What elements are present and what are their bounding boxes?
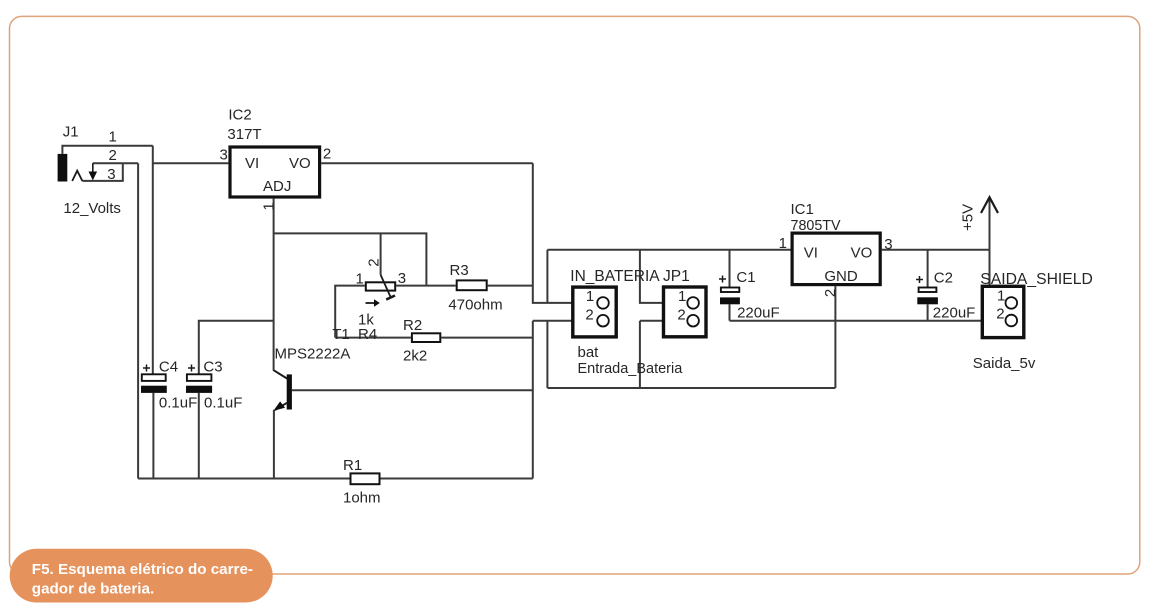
- wire SAIDA_SHIELD pin1 leg: [990, 250, 1005, 303]
- svg-text:2: 2: [677, 307, 685, 324]
- svg-text:IC2: IC2: [228, 107, 251, 124]
- op-amp U2 regulator IC1 7805TV box: [792, 233, 880, 285]
- svg-text:R4: R4: [358, 326, 377, 343]
- svg-text:2: 2: [822, 289, 839, 297]
- wire IC2 VI: [153, 162, 229, 164]
- connector J1: [58, 154, 98, 182]
- capacitor C2: [916, 276, 938, 304]
- wire JP1 pin2: [640, 320, 688, 322]
- wire +12V vertical to C4: [152, 146, 154, 374]
- connector IN_BATERIA: [573, 287, 616, 337]
- wire C3 bottom leg: [198, 393, 200, 479]
- wire R2 left: [335, 337, 411, 339]
- wire node VOUT vertical upper: [533, 163, 597, 303]
- wire T1 emitter leg: [273, 410, 275, 479]
- svg-text:1: 1: [779, 235, 787, 252]
- capacitor C1: [719, 276, 740, 305]
- wire R2 right: [441, 337, 533, 339]
- wire ADJ horizontal: [274, 233, 427, 285]
- svg-text:3: 3: [884, 236, 892, 253]
- svg-text:1ohm: 1ohm: [343, 490, 381, 507]
- wire J1 pin1 to vertical: [62, 146, 152, 154]
- wire J1 pin2 vertical to bottom: [137, 163, 139, 478]
- wire C2 top leg: [927, 250, 929, 287]
- svg-text:SAIDA_SHIELD: SAIDA_SHIELD: [980, 271, 1092, 288]
- svg-text:1: 1: [678, 288, 686, 305]
- JP1 pin labels: [677, 288, 686, 324]
- svg-text:R2: R2: [403, 317, 422, 334]
- svg-text:2: 2: [323, 145, 331, 162]
- svg-text:2: 2: [585, 307, 593, 324]
- svg-text:Saida_5v: Saida_5v: [973, 355, 1036, 372]
- transistor Q1 T1 MPS2222A: [274, 370, 292, 411]
- wire pot pin1: [335, 286, 365, 338]
- R4 labels: [332, 258, 406, 342]
- resistor R3: [457, 280, 487, 290]
- wire J1 pin3: [82, 163, 122, 181]
- wire net loop left vertical upper: [546, 250, 548, 303]
- svg-text:C2: C2: [934, 269, 953, 286]
- wire +5V vertical: [989, 197, 991, 250]
- svg-text:1: 1: [586, 288, 594, 305]
- svg-text:470ohm: 470ohm: [448, 297, 502, 314]
- svg-text:VI: VI: [804, 245, 818, 262]
- wire pot wiper leg: [380, 233, 382, 274]
- wire C4 bottom leg: [152, 393, 154, 479]
- wire pot pin3 to R3: [396, 285, 456, 287]
- capacitor C3: [186, 365, 212, 393]
- C4 C3 labels: [159, 359, 242, 412]
- svg-text:GND: GND: [824, 268, 858, 285]
- wire IC2 ADJ leg: [273, 199, 275, 371]
- connector SAIDA_SHIELD: [982, 286, 1024, 337]
- svg-text:12_Volts: 12_Volts: [63, 200, 121, 217]
- wire net loop left vertical lower: [546, 321, 548, 388]
- svg-text:T1: T1: [332, 326, 350, 343]
- wire J1 pin2: [93, 162, 138, 164]
- svg-text:C1: C1: [736, 269, 755, 286]
- resistor R1: [351, 473, 380, 484]
- svg-text:3: 3: [107, 166, 115, 183]
- svg-text:7805TV: 7805TV: [791, 218, 842, 234]
- R2 labels: [403, 317, 427, 364]
- power +5V arrow: [960, 197, 999, 231]
- IC2 labels: [220, 107, 332, 211]
- C2 labels: [933, 269, 976, 321]
- wire node VOUT vertical lower: [532, 321, 534, 479]
- svg-text:MPS2222A: MPS2222A: [275, 345, 351, 362]
- svg-text:IC1: IC1: [791, 201, 814, 218]
- wire bottom rail right of R1: [381, 478, 533, 480]
- svg-text:2k2: 2k2: [403, 347, 427, 364]
- resistor R2: [412, 333, 440, 342]
- wire JP1 vertical upper: [640, 250, 687, 303]
- connector JP1: [664, 287, 707, 337]
- R3 labels: [448, 262, 502, 313]
- svg-text:220uF: 220uF: [737, 304, 780, 321]
- svg-text:3: 3: [398, 270, 406, 287]
- svg-text:R3: R3: [450, 262, 469, 279]
- wire bottom rail left of R1: [138, 478, 349, 480]
- svg-text:2: 2: [366, 258, 383, 266]
- wire R3 right: [488, 285, 533, 287]
- wire IC2 VO: [321, 162, 533, 164]
- wire T1 base: [292, 389, 533, 391]
- svg-text:2: 2: [996, 306, 1004, 323]
- C1 labels: [736, 269, 779, 321]
- svg-text:+5V: +5V: [960, 204, 977, 231]
- IC1 labels: [779, 201, 893, 297]
- svg-text:VO: VO: [289, 155, 311, 172]
- svg-text:F5. Esquema elétrico do carre-: F5. Esquema elétrico do carre-: [32, 561, 253, 578]
- svg-text:R1: R1: [343, 457, 362, 474]
- wire C1 bottom leg: [729, 304, 731, 320]
- svg-text:IN_BATERIA JP1: IN_BATERIA JP1: [570, 268, 689, 285]
- svg-text:0.1uF: 0.1uF: [159, 394, 197, 411]
- svg-text:VO: VO: [851, 245, 873, 262]
- wire gnd bottom horizontal: [547, 387, 835, 389]
- svg-text:220uF: 220uF: [933, 305, 976, 322]
- SAIDA_SHIELD labels: [973, 271, 1093, 372]
- op-amp U1 regulator IC2 317T box: [230, 147, 320, 197]
- svg-text:317T: 317T: [227, 126, 261, 143]
- wire C1 top leg: [729, 250, 731, 287]
- svg-text:2: 2: [109, 147, 117, 164]
- wire C3 top leg: [199, 321, 274, 374]
- node label J1 texts: [63, 123, 121, 217]
- svg-text:Entrada_Bateria: Entrada_Bateria: [578, 361, 684, 377]
- wire IC1 GND leg: [834, 286, 836, 388]
- R1 labels: [343, 457, 381, 507]
- figure caption pill: [10, 549, 273, 603]
- svg-text:C3: C3: [203, 359, 222, 376]
- svg-text:bat: bat: [578, 344, 600, 361]
- svg-text:1: 1: [356, 271, 364, 288]
- IN_BATERIA labels: [570, 268, 689, 377]
- capacitor C4: [141, 365, 167, 393]
- wire gnd rail: [730, 320, 1006, 322]
- wire IN_BATERIA pin2: [533, 320, 598, 322]
- wire JP1 vertical lower: [639, 321, 641, 388]
- svg-text:C4: C4: [159, 359, 178, 376]
- svg-text:3: 3: [220, 147, 228, 164]
- svg-text:gador de bateria.: gador de bateria.: [32, 581, 154, 598]
- potentiometer R4: [366, 275, 396, 307]
- svg-text:J1: J1: [63, 123, 79, 140]
- wire C2 bottom leg: [927, 304, 929, 320]
- wire top net horizontal: [547, 249, 790, 251]
- svg-text:0.1uF: 0.1uF: [204, 394, 242, 411]
- svg-text:VI: VI: [245, 155, 259, 172]
- svg-text:1: 1: [261, 202, 278, 210]
- wire IC1 VO: [882, 249, 990, 251]
- svg-text:ADJ: ADJ: [263, 178, 291, 195]
- svg-text:1: 1: [997, 287, 1005, 304]
- svg-text:1: 1: [109, 129, 117, 146]
